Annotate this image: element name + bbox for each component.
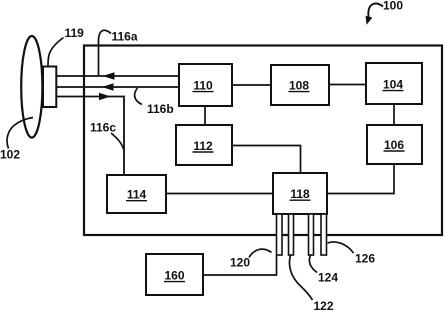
arrowhead 100 (366, 16, 373, 25)
leader 124 (309, 255, 317, 273)
svg-text:102: 102 (0, 148, 20, 162)
wire 112-118 (232, 146, 301, 174)
label 112 (193, 139, 214, 153)
svg-text:160: 160 (164, 269, 184, 283)
box 114 (107, 175, 166, 213)
wire 160-pin120 (203, 255, 277, 275)
leader arrow 100 (368, 4, 383, 19)
wire 116b (56, 86, 179, 88)
leader 102 (7, 118, 33, 149)
label 118 (290, 187, 311, 201)
pin 122 (289, 214, 294, 255)
svg-text:110: 110 (193, 79, 213, 93)
system enclosure 100 (84, 46, 442, 236)
box 160 (146, 254, 203, 295)
box 110 (179, 64, 232, 106)
pin 120 (277, 214, 283, 255)
wire 116a (56, 75, 179, 77)
wire 104-106 (393, 104, 395, 125)
svg-text:112: 112 (193, 139, 213, 153)
box 108 (271, 65, 329, 105)
svg-text:114: 114 (127, 188, 147, 202)
svg-text:116b: 116b (147, 102, 174, 116)
wire 116c vertical (123, 96, 125, 175)
label 104 (383, 78, 404, 92)
arrowhead 116a (103, 72, 115, 80)
label 106 (384, 138, 405, 152)
svg-text:118: 118 (290, 187, 310, 201)
antenna feed block (43, 67, 56, 108)
label 110 (193, 79, 214, 93)
box 112 (176, 125, 232, 165)
svg-text:119: 119 (65, 26, 85, 40)
label 108 (289, 79, 310, 93)
svg-text:116a: 116a (112, 30, 138, 44)
svg-text:108: 108 (289, 79, 309, 93)
label 114 (126, 188, 147, 202)
leader 116c (111, 133, 124, 150)
box 104 (366, 63, 422, 104)
box 106 (367, 125, 422, 164)
label 160 (164, 269, 185, 283)
pin 126 (321, 214, 327, 255)
leader 119 (48, 38, 64, 66)
svg-text:124: 124 (318, 271, 338, 285)
wire 108-104 (329, 84, 366, 86)
wire 118-106 (327, 164, 394, 194)
svg-text:100: 100 (383, 0, 403, 13)
antenna dish 102 (21, 36, 42, 138)
leader 116b (135, 88, 142, 105)
svg-text:126: 126 (355, 252, 375, 266)
svg-text:116c: 116c (90, 121, 116, 135)
wire 114-118 (166, 193, 273, 195)
arrowhead 116b (102, 83, 114, 91)
svg-text:104: 104 (383, 78, 403, 92)
leader 126 (328, 242, 354, 253)
svg-text:106: 106 (384, 138, 404, 152)
svg-text:120: 120 (230, 256, 250, 270)
leader 120 (249, 249, 272, 257)
leader 122 (289, 255, 312, 300)
wire 116c horizontal (56, 96, 124, 98)
wire 110-112 (204, 106, 206, 125)
pin 124 (309, 214, 314, 255)
wire 110-108 (232, 84, 271, 86)
box 118 (273, 173, 327, 214)
leader 116a (99, 30, 112, 75)
svg-text:122: 122 (314, 299, 334, 311)
arrowhead 116c (99, 93, 111, 101)
